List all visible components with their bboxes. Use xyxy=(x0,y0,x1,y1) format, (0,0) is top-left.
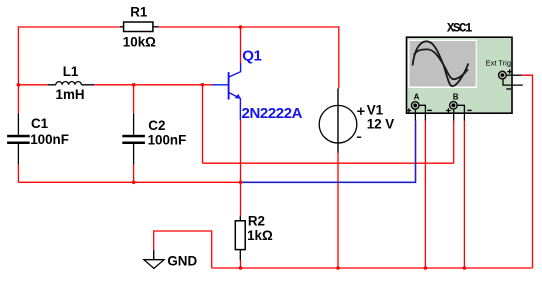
oscilloscope screen xyxy=(410,41,476,87)
svg-text:B: B xyxy=(453,93,459,102)
svg-text:Ext Trig: Ext Trig xyxy=(486,59,511,68)
svg-text:100nF: 100nF xyxy=(30,132,69,147)
svg-text:Q1: Q1 xyxy=(242,48,261,65)
scope trace B (small sine) xyxy=(414,49,468,79)
terminal ExtTrig jack xyxy=(499,71,507,79)
wire: collector drop from top rail xyxy=(240,27,242,63)
junction: base node xyxy=(201,83,205,87)
wire: V1 bottom to ground rail xyxy=(337,153,339,269)
svg-text:12 V: 12 V xyxy=(367,117,395,132)
terminal ExtTrig plus mark xyxy=(507,69,512,74)
junction: R2 ground node xyxy=(239,266,243,270)
junction: scope B minus ground node xyxy=(463,266,467,270)
wire: ground bottom rail xyxy=(212,267,533,269)
terminal A jack xyxy=(411,102,419,110)
terminal B minus stub xyxy=(457,105,464,120)
wire: scope A minus drop xyxy=(424,121,426,269)
wire: base node down xyxy=(202,85,204,163)
junction: scope A minus ground node xyxy=(424,266,428,270)
capacitor C2 xyxy=(122,113,145,165)
svg-text:2N2222A: 2N2222A xyxy=(242,105,303,122)
terminal ExtTrig plus stub xyxy=(507,74,522,76)
resistor R2 xyxy=(235,216,245,260)
svg-text:GND: GND xyxy=(167,254,197,269)
svg-text:1kΩ: 1kΩ xyxy=(247,228,273,243)
svg-text:R1: R1 xyxy=(130,5,148,20)
terminal ExtTrig minus stub xyxy=(503,79,523,85)
svg-text:C2: C2 xyxy=(148,118,165,133)
junction: collector / R1 node xyxy=(239,25,243,29)
wire: L1 row left xyxy=(18,84,47,86)
wire: ground riser xyxy=(154,231,212,268)
svg-text:V1: V1 xyxy=(367,103,384,118)
terminal B stub down xyxy=(453,109,455,121)
wire: bottom-left rail xyxy=(18,181,240,183)
wire: scope B plus riser xyxy=(453,121,455,164)
capacitor C1 xyxy=(7,113,30,165)
svg-text:A: A xyxy=(414,93,420,102)
terminal A plus mark xyxy=(407,108,412,113)
wire: ext trig lead red xyxy=(522,75,533,268)
wire: left vertical lower (C1 bottom to bottom-left rail) xyxy=(17,165,19,183)
svg-text:1mH: 1mH xyxy=(56,87,85,102)
junction: V1 ground node xyxy=(336,266,340,270)
oscilloscope screen bezel xyxy=(408,40,477,88)
junction: C2 top node xyxy=(132,83,136,87)
ground symbol GND xyxy=(144,250,164,268)
terminal B jack xyxy=(450,102,458,110)
wire: C2 drop upper xyxy=(133,85,135,113)
transistor Q1 (2N2222A NPN) xyxy=(212,63,241,120)
junction: L1 left node xyxy=(17,83,21,87)
wire: C2 drop lower xyxy=(133,165,135,183)
svg-text:100nF: 100nF xyxy=(148,133,187,148)
svg-text:L1: L1 xyxy=(63,64,79,79)
terminal A stub down xyxy=(414,109,416,121)
terminal A minus stub xyxy=(419,105,426,120)
svg-text:XSC1: XSC1 xyxy=(447,22,472,36)
wire: L1 row right to base xyxy=(94,84,212,86)
terminal ExtTrig minus mark xyxy=(506,88,511,90)
scope trace A (large sine) xyxy=(413,41,469,86)
wire: top rail left segment xyxy=(18,26,119,28)
inductor L1 xyxy=(48,82,94,85)
terminal B plus mark xyxy=(446,108,451,113)
svg-text:10kΩ: 10kΩ xyxy=(123,35,156,50)
wire: R2 bottom to ground rail xyxy=(240,260,242,268)
wire: emitter to emitter junction xyxy=(240,120,242,182)
terminal B minus mark xyxy=(467,109,471,111)
wire: base node across to scope B xyxy=(203,162,454,164)
wire: scope A blue wire xyxy=(241,121,416,183)
wire: V1 top drop from top rail xyxy=(338,26,340,88)
wire: top rail right segment xyxy=(159,26,339,28)
wire: emitter junction down to R2 xyxy=(240,182,242,215)
svg-text:C1: C1 xyxy=(31,116,49,131)
source V1 (DC 12V) xyxy=(319,89,364,153)
svg-text:R2: R2 xyxy=(248,213,265,228)
terminal A minus mark xyxy=(427,109,432,111)
junction: C2 bottom node xyxy=(132,181,136,185)
wire: scope B minus drop xyxy=(463,121,465,269)
junction: emitter node xyxy=(239,181,243,185)
oscilloscope XSC1 body xyxy=(407,37,513,113)
wire: left vertical upper (C1 top to top rail) xyxy=(17,26,19,113)
resistor R1 xyxy=(120,22,159,32)
